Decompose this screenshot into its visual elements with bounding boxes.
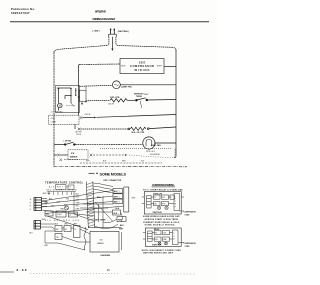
control housing vertical wire xyxy=(73,192,75,215)
stub leads left of box 1 xyxy=(142,197,145,204)
connector labels xyxy=(30,192,51,211)
svg-text:NOTE: DISCONNECT POWER CORD: NOTE: DISCONNECT POWER CORD xyxy=(142,250,182,252)
loom hatch marks xyxy=(86,183,95,227)
box 1 internal ladder xyxy=(147,196,152,209)
thermostat bulb pictorial xyxy=(65,206,69,210)
compressor box xyxy=(120,59,164,74)
svg-text:P: P xyxy=(175,206,176,208)
wire: fan rung xyxy=(54,143,143,145)
label DEF. HTR above xyxy=(110,97,120,99)
label WHT xyxy=(157,65,163,67)
lower connector label xyxy=(30,219,46,235)
svg-text:BLK: BLK xyxy=(120,225,124,227)
svg-text:HT: HT xyxy=(65,229,67,231)
svg-text:TEMPERATURE CONTROL: TEMPERATURE CONTROL xyxy=(45,182,84,185)
wire: compressor to right rail xyxy=(164,66,176,68)
label wiring connector xyxy=(104,180,122,182)
power plug xyxy=(108,29,116,37)
wires connecting lower cluster xyxy=(41,224,91,250)
lower small boxes xyxy=(55,226,80,240)
svg-text:EVAP. FAN: EVAP. FAN xyxy=(151,144,161,147)
svg-text:SOME MODELS HAVE A RUN CAP.: SOME MODELS HAVE A RUN CAP. xyxy=(143,215,180,218)
wire: water valve dashed line xyxy=(100,148,172,150)
svg-text:CURRENT START RELAY & OVLD.: CURRENT START RELAY & OVLD. xyxy=(143,221,180,224)
wire: ice maker rung right dashes xyxy=(93,154,174,158)
wire: lamp rung right xyxy=(120,84,176,86)
ice maker box labels xyxy=(97,239,104,244)
relay box 1 xyxy=(144,192,181,215)
footer dotted rule right xyxy=(126,273,196,275)
svg-text:415 W: 415 W xyxy=(85,114,91,116)
label WHT on rail xyxy=(144,94,149,96)
svg-text:BLK WHT RED GRN: BLK WHT RED GRN xyxy=(45,220,80,222)
svg-text:C: C xyxy=(170,197,172,199)
svg-text:B: B xyxy=(30,206,31,208)
wire above ice maker box xyxy=(88,227,122,229)
svg-text:BLK: BLK xyxy=(103,161,107,163)
svg-text:CONT: CONT xyxy=(51,122,57,124)
svg-text:ICE: ICE xyxy=(71,153,75,155)
wire: mullion rung right xyxy=(149,127,176,129)
svg-text:(NEUTRAL): (NEUTRAL) xyxy=(118,30,129,33)
footer page number xyxy=(107,268,111,272)
svg-text:COMPRESSOR: COMPRESSOR xyxy=(184,243,197,245)
connector stub wires xyxy=(42,199,48,207)
svg-text:C: C xyxy=(175,198,177,200)
right rail wire xyxy=(175,50,177,156)
svg-text:START RUN: START RUN xyxy=(152,243,162,246)
label LAMP FRZ xyxy=(121,86,133,89)
lower cluster labels xyxy=(114,213,125,230)
wire: plug right lead to right rail xyxy=(116,37,176,51)
label CLD CONT xyxy=(51,118,57,123)
svg-text:WHT: WHT xyxy=(76,197,80,199)
ice maker contact X left xyxy=(57,154,60,157)
svg-text:O: O xyxy=(175,201,177,203)
svg-text:LAMP, FRZ: LAMP, FRZ xyxy=(121,86,133,89)
svg-text:WHT: WHT xyxy=(144,94,149,96)
wire: defrost mid xyxy=(127,99,135,101)
caption lines above box 2 xyxy=(143,221,180,227)
svg-text:RN: RN xyxy=(155,239,158,241)
svg-text:ST: ST xyxy=(154,197,156,199)
svg-text:BLK: BLK xyxy=(114,213,118,215)
cold control contact X xyxy=(80,116,83,119)
label (NEUTRAL) xyxy=(118,30,129,33)
label ALT FR W xyxy=(76,131,83,136)
svg-text:WIRING: WIRING xyxy=(135,68,150,72)
wavy wire bundle xyxy=(84,227,86,250)
svg-text:2: 2 xyxy=(119,196,120,198)
svg-text:8-98: 8-98 xyxy=(17,268,27,272)
svg-text:WHT: WHT xyxy=(42,219,46,221)
caption line above box 1 xyxy=(143,188,183,191)
wires: drops with arrows right of cluster xyxy=(81,85,87,105)
svg-text:SOME MODELS WIRING: SOME MODELS WIRING xyxy=(145,225,175,227)
box 2 tiny labels xyxy=(152,228,175,247)
svg-text:WTR. VLV.: WTR. VLV. xyxy=(146,151,156,153)
label 415 W xyxy=(85,114,91,116)
label (LINE) xyxy=(93,31,100,33)
svg-text:YEL: YEL xyxy=(76,206,79,208)
right vertical stub xyxy=(121,232,123,250)
interior light bulb xyxy=(58,103,63,110)
mullion heater resistor with terminals xyxy=(128,127,149,130)
svg-text:BLK: BLK xyxy=(30,233,34,235)
wire: defrost rung right xyxy=(148,99,177,102)
wiring loom hatched ribbon xyxy=(86,182,95,229)
lower connector block xyxy=(34,221,41,230)
svg-text:DEF. CONNECTOR: DEF. CONNECTOR xyxy=(104,180,122,182)
label BLK right of loom xyxy=(97,197,102,199)
svg-text:3: 3 xyxy=(119,202,120,204)
labels above lower boxes xyxy=(55,224,77,226)
freezer lamp xyxy=(113,81,121,89)
scattered wire color labels xyxy=(45,198,70,210)
header title WIRING DIAGRAM xyxy=(92,17,115,21)
svg-text:CORD: CORD xyxy=(185,246,191,248)
svg-text:WHT: WHT xyxy=(132,198,136,200)
svg-text:CONT: CONT xyxy=(57,214,62,216)
ice maker contact X right xyxy=(90,154,93,157)
comb terminal box A xyxy=(56,185,67,190)
box 1 internal components xyxy=(151,194,184,212)
comb terminal box B xyxy=(68,185,74,189)
svg-text:M: M xyxy=(175,204,177,206)
lower right-of-channel cluster xyxy=(113,210,127,222)
bottom-left title TEMPERATURE CONTROL HOUSING xyxy=(45,182,84,185)
legend SOME MODELS xyxy=(89,173,98,175)
long diagonal wire xyxy=(95,202,113,221)
svg-text:HTR: HTR xyxy=(86,161,90,163)
label DEFROST TERM. xyxy=(134,93,144,98)
curved wires near channel bottom xyxy=(95,213,123,229)
svg-text:5995437637: 5995437637 xyxy=(11,11,30,15)
footer dotted rule left xyxy=(30,273,120,275)
mid cluster labels xyxy=(46,214,71,217)
svg-text:RN: RN xyxy=(154,204,157,206)
svg-text:BEFORE SERVICING UNIT: BEFORE SERVICING UNIT xyxy=(143,253,174,255)
right rail bottom hook xyxy=(174,156,176,158)
label MUL. OIL HTR xyxy=(132,132,145,134)
lower small box labels xyxy=(56,229,77,239)
svg-text:DEFROST: DEFROST xyxy=(134,93,144,95)
svg-text:LT: LT xyxy=(70,215,72,217)
svg-text:SEE: SEE xyxy=(139,60,146,64)
svg-text:WIRING DIAGRAM: WIRING DIAGRAM xyxy=(92,17,115,21)
svg-text:SOLENOID: SOLENOID xyxy=(150,154,160,156)
evaporator fan motor xyxy=(143,137,155,149)
box 2 internal components xyxy=(152,230,184,245)
vertical harness drops xyxy=(74,196,113,228)
svg-text:BLK: BLK xyxy=(116,208,120,210)
svg-text:450 W: 450 W xyxy=(108,103,114,105)
box 2 internal ladder xyxy=(148,231,153,242)
label LT. SW xyxy=(51,112,64,114)
mid cluster boxes xyxy=(45,211,78,217)
header publication number text xyxy=(11,7,35,15)
svg-text:M: M xyxy=(173,239,175,241)
defrost timer channel box xyxy=(124,187,129,212)
svg-text:YEL: YEL xyxy=(66,198,69,200)
wires: harness diagonals xyxy=(42,191,124,217)
label SEE COMPRESSOR WIRING xyxy=(130,60,154,72)
wire: lamp rung left xyxy=(80,85,113,86)
mid cluster caption row xyxy=(45,220,80,222)
label BLK xyxy=(121,65,126,67)
svg-text:BLK: BLK xyxy=(121,65,126,67)
svg-text:WHT: WHT xyxy=(157,65,163,67)
svg-text:RED BLK-WHT ORN BRN: RED BLK-WHT ORN BRN xyxy=(47,189,78,191)
svg-text:W: W xyxy=(30,199,32,201)
caption DIAGRAM under box xyxy=(101,254,111,257)
wire: mullion rung left xyxy=(80,128,127,130)
svg-text:1 LT. SW RED: 1 LT. SW RED xyxy=(51,112,64,114)
caption lines under box 1 xyxy=(143,215,180,221)
svg-text:WHT: WHT xyxy=(122,161,126,163)
wire: lower dashed row with labels xyxy=(80,162,162,164)
svg-text:SOME MODELS: SOME MODELS xyxy=(100,172,127,176)
svg-text:SW: SW xyxy=(56,229,59,231)
ice maker dashed box xyxy=(68,150,88,160)
header model number text xyxy=(95,11,107,14)
svg-text:MUL. OIL HTR: MUL. OIL HTR xyxy=(132,132,145,134)
wire: ice maker rung left xyxy=(54,154,57,156)
box 1 tiny labels xyxy=(153,192,177,214)
wire: compressor rung xyxy=(79,63,120,66)
svg-text:R: R xyxy=(30,202,32,204)
harness bracket labels upper xyxy=(49,186,72,188)
freezer door switch xyxy=(64,142,75,145)
svg-text:FR W: FR W xyxy=(77,134,82,136)
svg-text:BLK: BLK xyxy=(114,191,118,193)
title underline xyxy=(152,186,176,188)
svg-text:COMPRESSOR: COMPRESSOR xyxy=(184,211,197,213)
wire label column xyxy=(76,194,81,211)
wire: short dashes xyxy=(64,158,79,160)
svg-text:BLK WHT RED: BLK WHT RED xyxy=(49,186,72,188)
ice maker outline box xyxy=(90,232,119,253)
small contact X lower left xyxy=(60,159,62,161)
svg-text:10: 10 xyxy=(107,268,111,272)
cold control box xyxy=(49,115,80,124)
svg-text:P.T.C. START RELAY & OVERLOAD: P.T.C. START RELAY & OVERLOAD xyxy=(143,188,183,191)
defrost termination thermostat xyxy=(136,98,148,108)
svg-text:CLD: CLD xyxy=(51,118,56,120)
svg-text:WHT: WHT xyxy=(119,228,124,230)
legend text SOME MODELS xyxy=(100,172,127,176)
wire: control rung xyxy=(83,115,176,119)
label WHT right of channel xyxy=(132,198,136,200)
wire: dashed riser right xyxy=(174,149,176,158)
bottom-right title COMPRESSOR WIRING xyxy=(152,184,175,187)
ground arrow from plug center xyxy=(111,37,113,51)
tiny labels above dashed row xyxy=(86,161,145,163)
svg-text:CORD: CORD xyxy=(185,214,191,216)
svg-text:ORN: ORN xyxy=(60,208,65,210)
terminal box labels xyxy=(114,191,120,204)
svg-text:DIAGRAM: DIAGRAM xyxy=(101,254,111,257)
svg-text:WHT CAB: WHT CAB xyxy=(43,192,52,195)
wire: mullion riser xyxy=(74,124,76,129)
svg-text:CAP: CAP xyxy=(163,238,166,241)
svg-text:ACROSS START & RUN TERM.: ACROSS START & RUN TERM. xyxy=(145,218,179,221)
wire: defrost rung left xyxy=(86,99,110,101)
left rail wire xyxy=(53,52,55,167)
wire: plug left lead to left rail xyxy=(54,37,109,53)
footer issue code xyxy=(17,268,27,272)
svg-text:I. DR SW: I. DR SW xyxy=(64,140,72,142)
label WTR VLV SOLENOID xyxy=(146,151,160,156)
svg-text:TERM.: TERM. xyxy=(136,96,143,98)
svg-text:START RUN: START RUN xyxy=(153,211,163,214)
cluster contacts xyxy=(57,88,76,107)
label ICE MAKER xyxy=(70,153,78,158)
svg-text:PTC: PTC xyxy=(162,204,166,206)
svg-text:TM: TM xyxy=(56,237,59,239)
svg-text:WHT: WHT xyxy=(74,224,78,226)
terminal boxes stack xyxy=(113,189,123,204)
svg-text:DEF. HTR.: DEF. HTR. xyxy=(110,97,120,99)
label GRN xyxy=(44,245,49,247)
svg-text:OVL: OVL xyxy=(163,233,166,235)
stub leads left of box 2 xyxy=(143,233,146,240)
svg-text:ST: ST xyxy=(155,233,157,235)
wire: bottom border dash-dot xyxy=(54,166,187,168)
thermostat / switch cluster box xyxy=(56,86,80,113)
svg-text:MAKER: MAKER xyxy=(70,155,78,158)
caption lines under box 2 xyxy=(142,250,182,255)
label 450 W below xyxy=(108,103,114,105)
svg-text:O: O xyxy=(173,236,175,238)
relay box 2 xyxy=(145,228,181,246)
svg-text:1: 1 xyxy=(119,191,120,193)
svg-text:C: C xyxy=(173,233,175,235)
svg-text:COMPRESSOR: COMPRESSOR xyxy=(130,64,154,68)
label DEFROST TIMER xyxy=(95,220,106,222)
defrost heater resistor xyxy=(110,99,127,102)
harness comb xyxy=(47,192,76,196)
svg-text:RLY: RLY xyxy=(162,197,166,199)
svg-text:G: G xyxy=(30,209,32,211)
svg-text:VLV: VLV xyxy=(141,161,145,163)
svg-text:SW: SW xyxy=(46,214,49,216)
wire: fan rung right xyxy=(154,142,176,144)
svg-text:CL: CL xyxy=(74,229,76,231)
loom top exit wires xyxy=(93,183,113,193)
mullion contact X xyxy=(78,128,81,131)
label BLK WHT right of box 2 xyxy=(184,243,197,248)
header rule xyxy=(10,21,209,23)
svg-text:OVERLOAD: OVERLOAD xyxy=(153,192,163,195)
extra harness diagonal xyxy=(47,216,88,230)
label BLK WHT right of box 1 xyxy=(184,211,197,216)
label EVAP FAN xyxy=(151,144,161,147)
footer left rule xyxy=(0,271,14,273)
label FRZ DR SW xyxy=(64,140,72,142)
svg-text:ICE: ICE xyxy=(100,239,104,241)
label BLK below channel xyxy=(116,208,120,210)
junction dot on riser xyxy=(78,96,80,98)
svg-text:DEF. TIMER: DEF. TIMER xyxy=(95,220,106,222)
left connector block xyxy=(34,198,42,211)
harness tiny labels xyxy=(47,189,78,191)
svg-text:COMPRESSOR WIRING: COMPRESSOR WIRING xyxy=(152,184,175,187)
relay component box on riser xyxy=(79,90,86,101)
svg-text:MAKER: MAKER xyxy=(97,242,104,245)
svg-text:GRN: GRN xyxy=(44,245,49,247)
wire: compressor feed riser xyxy=(78,65,80,116)
svg-text:( LINE ): ( LINE ) xyxy=(93,31,100,33)
svg-text:MRT13CRHZ0: MRT13CRHZ0 xyxy=(95,11,107,14)
